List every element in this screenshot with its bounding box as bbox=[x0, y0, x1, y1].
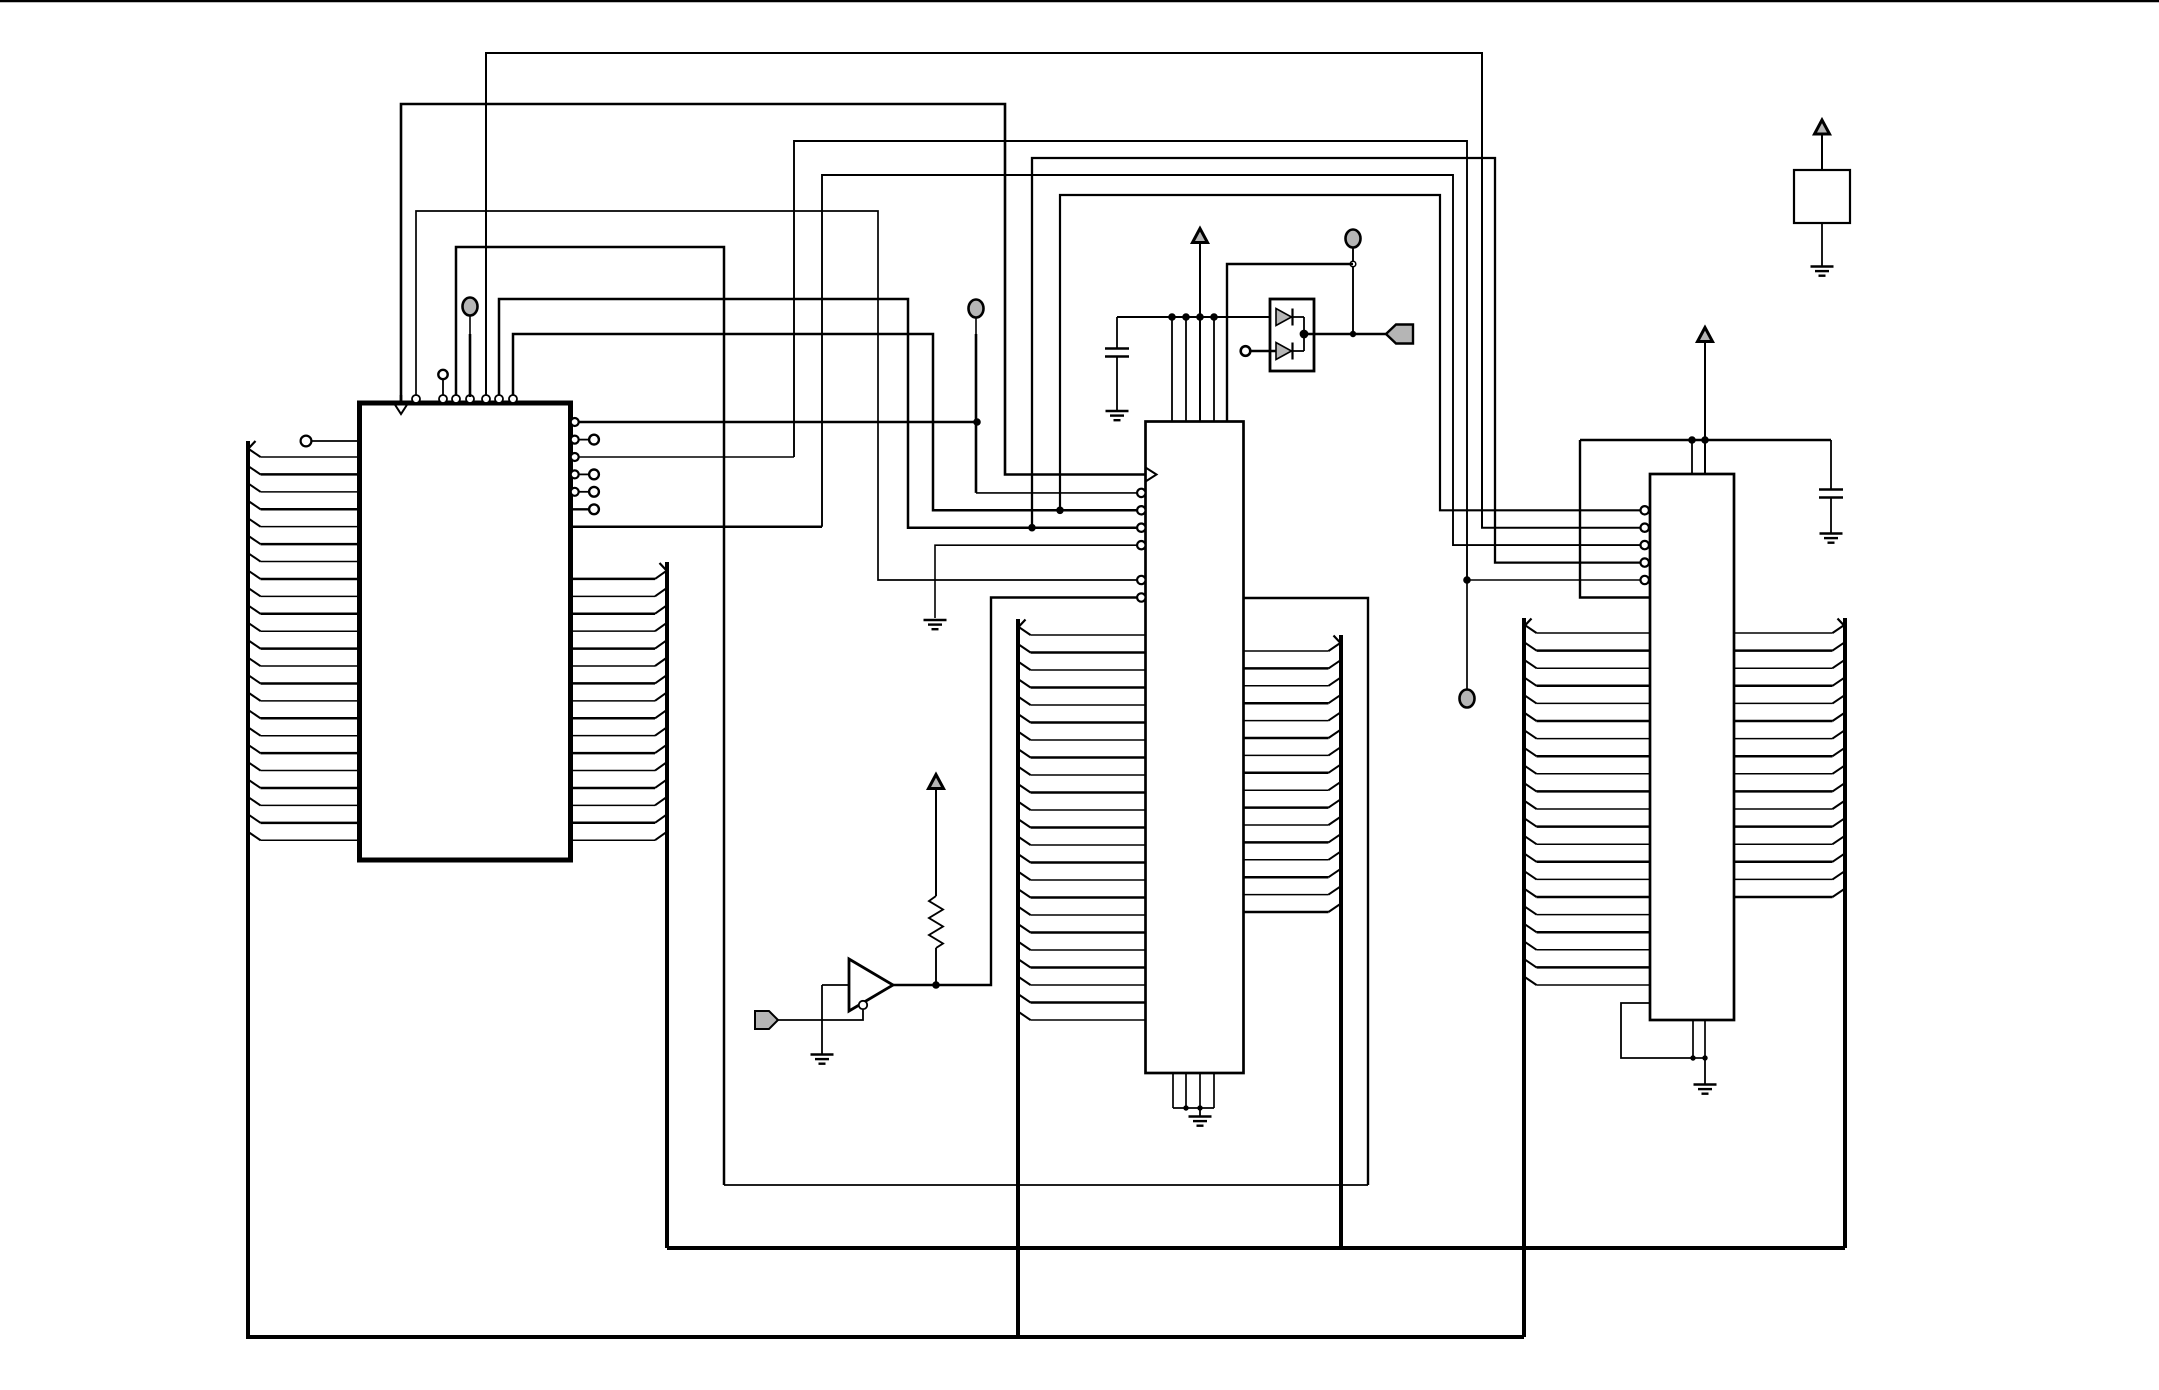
U2 left pin bubble row 580 bbox=[1137, 576, 1145, 584]
wire diode output to flag bbox=[1304, 333, 1386, 335]
wire U1 pin422 to balloon-net junction bbox=[579, 421, 977, 424]
bus A bottom horizontal wire y=1337 bbox=[246, 1335, 1524, 1339]
IC U1 (left MCU) body bbox=[360, 403, 571, 860]
capacitor C1 plates bbox=[1105, 349, 1129, 357]
power arrow VCC above U2 bbox=[1193, 229, 1208, 422]
net flag OE (buffer enable) bbox=[755, 1011, 778, 1029]
U1 right pin bubble row 440 bbox=[571, 436, 579, 444]
bus B entries from U2 right pins bbox=[1244, 643, 1341, 913]
net loop: U1 pin456 - v724 - y1185 - v1368 - U2 right pin 598 bbox=[456, 247, 724, 1185]
stem balloon to output wire bbox=[1352, 248, 1354, 334]
net CLK: U1 pin401 - top route - U2 clock pin bbox=[401, 104, 1146, 475]
U1 top pin no-connect stub x=443 bbox=[442, 379, 444, 395]
net: U1 pin528 - y175 - v1453 - U3 pin545 bbox=[822, 175, 1645, 545]
balloon terminal (470,307) bbox=[463, 298, 478, 316]
net: balloon(976,308) - U2 pin493 bbox=[975, 317, 977, 493]
U3 top feed v1692 bbox=[1691, 440, 1693, 474]
U1 top pin circle x=499 bbox=[495, 395, 503, 403]
U3 left pin bubble row 580 bbox=[1641, 576, 1649, 584]
U2 top feed v1214 bbox=[1213, 317, 1215, 422]
component X1 (top-right box) body bbox=[1794, 170, 1850, 223]
power arrow VCC above U3 bbox=[1698, 328, 1713, 475]
net: U1 pin470 to balloon bbox=[469, 316, 471, 398]
U3 left pin bubble row 510.3 bbox=[1641, 506, 1649, 514]
branch: v1060 - y195 - v1440 - U3 pin510 bbox=[1060, 195, 1645, 510]
bus A left vertical (left of U1) bbox=[246, 441, 250, 1337]
ground symbol under U2 bbox=[1189, 1108, 1212, 1126]
net: U1 pin486 - top line y53 - v1482 - U3 pin528 bbox=[486, 53, 1645, 528]
bus B top spike (right of U1) bbox=[660, 563, 668, 571]
U1 pin492 stub bbox=[579, 491, 589, 493]
U3 left pin bubble row 545.1 bbox=[1641, 541, 1649, 549]
ground symbol under C1 bbox=[1106, 411, 1129, 420]
wire y=1185 segment bbox=[724, 1184, 1368, 1186]
bus B bottom horizontal wire y=1248 bbox=[667, 1246, 1845, 1250]
junction dot (1060,510) bbox=[1056, 507, 1064, 515]
capacitor C2 top lead bbox=[1830, 440, 1832, 489]
junction dot (1705,1058) bbox=[1702, 1055, 1707, 1060]
U1 top pin circle x=456 bbox=[452, 395, 460, 403]
bus A entries to U3 left pins bbox=[1524, 625, 1650, 986]
U2 clock input arrow bbox=[1146, 468, 1157, 482]
U2 left pin bubble row 598 bbox=[1137, 593, 1145, 601]
U1 clock input arrow bbox=[395, 404, 408, 414]
U2 left pin bubble row 528 bbox=[1137, 524, 1145, 532]
capacitor C1 bottom lead bbox=[1116, 357, 1118, 412]
bus B entries from U3 right pins bbox=[1734, 625, 1845, 898]
U2 top feed v1186 bbox=[1185, 317, 1187, 422]
U1 top pin circle x=486 bbox=[482, 395, 490, 403]
net: U2 pin546 to ground bbox=[935, 545, 1137, 618]
no-connect circle (594,510) bbox=[589, 504, 599, 514]
U1 top pin circle x=470 bbox=[466, 395, 474, 403]
U1 right pin bubble row 457 bbox=[571, 453, 579, 461]
U2 bottom tie bar bbox=[1173, 1107, 1214, 1109]
net flag PWROUT bbox=[1386, 325, 1413, 344]
junction dot (1693,1058) bbox=[1690, 1055, 1695, 1060]
no-connect circle (594,440) bbox=[589, 435, 599, 445]
ground symbol under C2 bbox=[1820, 534, 1843, 543]
bus B entries from U1 right pins bbox=[570, 570, 667, 840]
diode D1a (top) bbox=[1276, 309, 1304, 326]
wire to U3 pin580 bbox=[1467, 579, 1645, 581]
bus A vertical (left of U3) bbox=[1522, 618, 1526, 1337]
U2 left pin bubble row 510 bbox=[1137, 506, 1145, 514]
bus B vertical (right of U3) bbox=[1843, 618, 1847, 1248]
top border line bbox=[0, 0, 2159, 2]
diode cathodes join vertical bbox=[1303, 317, 1305, 351]
no-connect circle above pin 443 bbox=[438, 370, 447, 379]
U1 top pin circle x=443 bbox=[439, 395, 447, 403]
junction dot (936,985) bbox=[932, 981, 940, 989]
U3 bottom stubs bbox=[1693, 1020, 1705, 1058]
U1 left pin wire y=441 bbox=[312, 440, 360, 442]
buffer input stub bbox=[822, 984, 849, 986]
ground symbol at buffer input bbox=[811, 1055, 834, 1064]
wire flag to enable bubble bbox=[778, 1010, 863, 1020]
junction node (1353,264) bbox=[1350, 261, 1356, 267]
net: U1 pin513 - y334 - v933 - U2 pin510 bbox=[513, 334, 1137, 510]
net: U1 pin499 - y299 - v908 - U2 pin528 bbox=[499, 299, 1137, 528]
stem to balloon (1467,698) bbox=[1466, 580, 1468, 689]
balloon terminal (976,308) bbox=[969, 300, 984, 318]
junction dot (977,422) bbox=[973, 418, 981, 426]
U1 pin440 stub bbox=[579, 439, 589, 441]
net: U2 pin598 - buffer output / resistor node bbox=[893, 598, 1137, 986]
diode D1b (bottom) bbox=[1250, 343, 1304, 360]
junction dot (1200,1108) bbox=[1197, 1105, 1202, 1110]
no-connect circle (594,492) bbox=[589, 487, 599, 497]
junction dot (1705,440) bbox=[1701, 436, 1709, 444]
net: U1 pin416 - U2 pin580 bbox=[416, 211, 1137, 580]
U1 top pin circle x=416 bbox=[412, 395, 420, 403]
capacitor C2 plates bbox=[1819, 490, 1843, 498]
bracket 1580 to U3 pin598 bbox=[1580, 440, 1650, 598]
power arrow VCC above R1 bbox=[929, 775, 944, 897]
bus A top spike (left of U2) bbox=[1018, 620, 1026, 628]
U1 right pin bubble row 422 bbox=[571, 418, 579, 426]
bus A entries to U1 left pins bbox=[248, 449, 360, 841]
capacitor C2 bottom lead bbox=[1830, 498, 1832, 534]
U1 right pin bubble row 492 bbox=[571, 488, 579, 496]
ground symbol under U3 bbox=[1694, 1058, 1717, 1094]
U2 top feed v1172 bbox=[1171, 317, 1173, 422]
wire balloon-net to U2 pin493 bbox=[976, 492, 1137, 494]
balloon terminal (1467,698) bbox=[1460, 690, 1475, 708]
bus B top spike (right of U3) bbox=[1838, 619, 1846, 627]
resistor R1 zigzag bbox=[929, 896, 943, 948]
bus A vertical (left of U2) bbox=[1016, 619, 1020, 1337]
junction dot (1304,334) bbox=[1300, 330, 1309, 339]
wire U1 pin528 to corner bbox=[570, 525, 822, 528]
buffer gate U4 triangle bbox=[849, 959, 893, 1011]
wire y=317 cap to diode bbox=[1117, 316, 1277, 318]
U2 left pin bubble row 493 bbox=[1137, 489, 1145, 497]
open circle at U1 left pin bbox=[301, 436, 312, 447]
power arrow VCC above X1 bbox=[1815, 120, 1830, 170]
X1 bottom stem bbox=[1821, 223, 1823, 266]
U1 pin510 stub bbox=[570, 508, 589, 510]
wire y=440 U3 supply bbox=[1580, 439, 1831, 441]
bus B top spike (right of U2) bbox=[1334, 636, 1342, 644]
U1 right pin bubble row 475 bbox=[571, 470, 579, 478]
ground symbol below (935,620) bbox=[924, 620, 947, 629]
buffer input grounded stem bbox=[821, 985, 823, 1054]
no-connect circle (594,475) bbox=[589, 470, 599, 480]
balloon terminal (1353,238) bbox=[1346, 230, 1361, 248]
bus A entries to U2 left pins bbox=[1018, 627, 1146, 1021]
diode pack D1 box bbox=[1270, 299, 1314, 371]
junction dot (1353,334) bbox=[1350, 331, 1356, 337]
wire y=264 to U2 top v1227 bbox=[1227, 264, 1353, 422]
bus A left top spike bbox=[248, 441, 256, 449]
U2 bottom stubs bbox=[1173, 1073, 1214, 1108]
buffer enable bubble bbox=[859, 1001, 867, 1009]
U3 left pin bubble row 527.7 bbox=[1641, 524, 1649, 532]
resistor R1 bottom lead bbox=[935, 948, 937, 985]
U1 pin475 stub bbox=[579, 473, 589, 475]
junction dot (1692,440) bbox=[1688, 436, 1696, 444]
IC U3 (right) body bbox=[1650, 474, 1734, 1020]
IC U2 (middle) body bbox=[1146, 422, 1244, 1074]
wire v1368 + U2 right pin598 bbox=[1244, 598, 1368, 1185]
junction dot (1467,580) bbox=[1463, 576, 1471, 584]
ground symbol under X1 bbox=[1811, 267, 1834, 276]
net: U1 pin457 - y141 - v1467 - U3 pin580 bbox=[794, 141, 1467, 580]
U3 left pin bubble row 562.6 bbox=[1641, 558, 1649, 566]
junction dot (1032,528) bbox=[1028, 524, 1036, 532]
bus B vertical (right of U1) bbox=[665, 562, 669, 1248]
junction dot (1186,1108) bbox=[1183, 1105, 1188, 1110]
U3 lower-left pin hook bbox=[1621, 1003, 1693, 1058]
junction dots on y=317 bbox=[1168, 313, 1218, 321]
U1 clock pin stub (x=401) bbox=[400, 395, 403, 403]
open circle input of D1b bbox=[1241, 346, 1251, 356]
branch: v1032 - y158 - v1495 - U3 pin563 bbox=[1032, 158, 1645, 563]
U1 top pin circle x=513 bbox=[509, 395, 517, 403]
capacitor C1 top lead bbox=[1116, 317, 1118, 348]
bus B vertical (right of U2) bbox=[1339, 635, 1343, 1248]
U2 left pin bubble row 546 bbox=[1137, 541, 1145, 549]
bus A top spike (left of U3) bbox=[1524, 619, 1532, 627]
wire U1 pin457 to corner bbox=[579, 456, 794, 458]
